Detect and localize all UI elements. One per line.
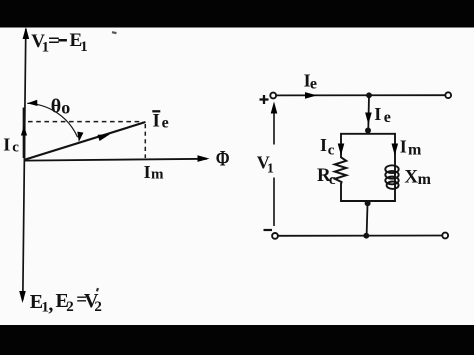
label theta0 (51, 96, 71, 118)
phasor Ie line (25, 122, 146, 160)
label Ic (3, 135, 19, 156)
stray mark top (112, 31, 117, 34)
svg-text:=: = (48, 28, 60, 52)
label Im (144, 162, 164, 183)
inductor Xm coils (385, 165, 398, 189)
horizontal axis (flux) (24, 159, 207, 161)
node junction bottom wire (363, 233, 369, 239)
vertical axis V1=-E1 / E1,E2=V2 (23, 29, 26, 300)
wire vertical to bottom (367, 201, 368, 236)
node junction top wire (366, 92, 372, 98)
svg-text:I: I (3, 135, 10, 155)
svg-text:2: 2 (94, 299, 102, 315)
V1 arrow line lower (273, 178, 275, 227)
V1 arrowhead up (271, 102, 278, 114)
svg-text:o: o (61, 98, 70, 118)
svg-text:Φ: Φ (216, 147, 230, 171)
svg-text:c: c (12, 140, 19, 156)
label Rc (317, 165, 336, 188)
terminal bottom-right (442, 233, 448, 239)
horizontal axis arrowhead right (198, 155, 210, 162)
svg-text:,: , (48, 294, 53, 316)
plus symbol (260, 95, 269, 104)
svg-text:X: X (404, 166, 418, 187)
svg-text:1: 1 (267, 161, 274, 176)
letterbox bar bottom (0, 325, 474, 355)
svg-text:I: I (374, 104, 381, 124)
svg-text:I: I (400, 137, 407, 157)
V1 arrow line upper (273, 110, 275, 145)
svg-text:I: I (144, 162, 151, 182)
svg-text:m: m (418, 171, 432, 188)
terminal bottom-left (272, 233, 278, 239)
phasor Ic mid arrowhead (21, 126, 27, 136)
svg-text:2: 2 (66, 299, 74, 315)
arrowhead Ie down (365, 113, 372, 125)
dashed projection horizontal (28, 121, 143, 123)
arrowhead Ie on top wire (305, 92, 317, 99)
label V1=-E1 (31, 28, 87, 56)
wire vertical from top junction (367, 95, 370, 134)
arc arrowhead at axis (27, 100, 37, 107)
stray tick above V2 (96, 288, 99, 292)
label V1 (257, 152, 274, 176)
label phi axis (216, 147, 230, 171)
phasor Ie mid arrowhead (98, 131, 111, 141)
label Im (400, 137, 422, 159)
svg-text:c: c (329, 172, 336, 188)
svg-text:I: I (153, 111, 160, 132)
letterbox bar top (0, 0, 474, 28)
svg-text:m: m (151, 167, 164, 183)
svg-text:m: m (408, 141, 422, 158)
arrowhead Im down (392, 144, 399, 156)
wire left branch upper (340, 133, 342, 158)
wire box bottom bar (341, 200, 395, 202)
terminal top-left (270, 93, 276, 99)
terminal top-right (445, 92, 451, 98)
arrowhead Ic down (338, 144, 345, 156)
vertical axis arrowhead up (23, 27, 30, 39)
label E1,E2=V2 (30, 290, 102, 316)
angle arc theta0 (27, 103, 77, 137)
label Xm (404, 166, 431, 188)
label Ie middle (374, 104, 391, 126)
label Ic (320, 135, 335, 158)
dashed projection vertical Im (144, 124, 146, 158)
svg-text:I: I (320, 135, 327, 155)
wire bottom horizontal (278, 235, 442, 237)
label Ie top (304, 70, 317, 92)
wire box top bar (341, 133, 395, 135)
svg-text:c: c (328, 142, 335, 158)
phasor Ic line (23, 108, 26, 159)
node at box bottom (365, 200, 371, 206)
label Ie phasor tip (152, 111, 168, 132)
wire right branch (394, 133, 396, 202)
minus symbol (264, 229, 273, 231)
wire top horizontal (277, 94, 446, 96)
resistor Rc (335, 157, 346, 184)
arc arrowhead at phasor (76, 132, 84, 143)
svg-text:θ: θ (51, 96, 61, 118)
vertical axis arrowhead down (19, 291, 26, 303)
svg-text:e: e (310, 76, 317, 93)
wire left branch lower (340, 184, 342, 203)
svg-text:e: e (162, 115, 169, 132)
svg-text:1: 1 (80, 39, 88, 55)
node at box top (365, 128, 371, 134)
svg-text:e: e (384, 109, 391, 126)
